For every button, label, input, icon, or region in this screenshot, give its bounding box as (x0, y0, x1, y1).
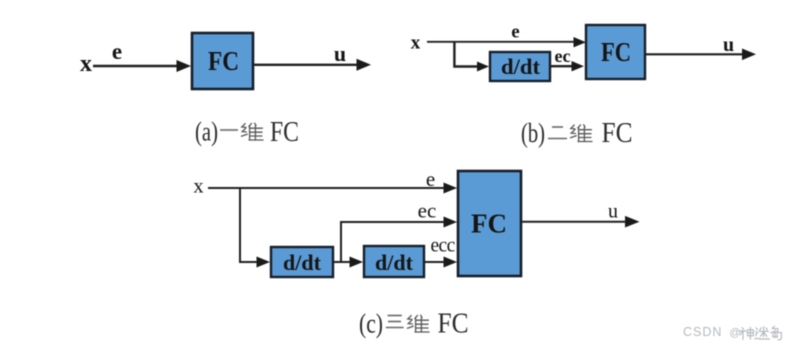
block FC U_c (458, 171, 521, 276)
svg-text:x: x (193, 176, 203, 198)
arrowhead output (a) (357, 59, 372, 71)
block FC U_b (586, 25, 645, 79)
caption (a) glyph yi (一) (220, 129, 238, 131)
svg-text:FC: FC (438, 309, 469, 340)
svg-text:e: e (426, 167, 435, 191)
watermark glyph shen (神) (740, 327, 754, 339)
arrowhead into FC (a) (177, 60, 192, 72)
svg-text:d/dt: d/dt (375, 250, 414, 275)
wire ecc from d/dt2 to FC (c) (424, 261, 444, 263)
block d/dt (b) (490, 52, 550, 81)
wire branch up ec (c) (341, 222, 444, 262)
svg-text:FC: FC (601, 37, 631, 67)
caption (b) glyph er (二) (548, 127, 567, 139)
svg-text:d/dt: d/dt (283, 250, 322, 275)
caption (b) glyph wei (570, 125, 592, 142)
wire input top e (c) (208, 187, 444, 189)
wire output u (a) (253, 64, 358, 66)
svg-text:x: x (411, 33, 421, 54)
svg-text:ec: ec (555, 46, 571, 66)
block d/dt D2 (c) (364, 246, 424, 277)
caption (c) glyph san (三) (386, 316, 404, 328)
svg-text:u: u (723, 34, 734, 56)
arrowhead into d/dt (b) (477, 62, 489, 72)
arrowhead ec into FC (b) (572, 61, 585, 71)
svg-text:u: u (334, 41, 346, 66)
block FC U_a (192, 33, 253, 89)
svg-text:FC: FC (208, 45, 239, 76)
block d/dt D1 (c) (271, 247, 333, 277)
arrowhead output (c) (625, 216, 640, 228)
arrowhead into d/dt 1 (c) (257, 257, 271, 268)
svg-text:u: u (608, 201, 618, 223)
wire ec from d/dt to FC (b) (550, 65, 572, 67)
svg-text:CSDN: CSDN (683, 325, 722, 339)
watermark glyph dao (岛) (771, 326, 782, 340)
svg-text:x: x (80, 51, 92, 77)
svg-text:ecc: ecc (431, 236, 456, 257)
watermark glyph mi (迷) (755, 327, 770, 339)
arrowhead e into FC (c) (444, 183, 458, 194)
caption (c) glyph wei (407, 315, 429, 332)
arrowhead ecc into FC (c) (444, 257, 458, 268)
wire output u (b) (645, 53, 743, 55)
svg-text:(b): (b) (521, 118, 545, 148)
arrowhead into d/dt 2 (c) (350, 257, 364, 268)
caption (a) glyph wei (241, 123, 263, 140)
svg-text:d/dt: d/dt (501, 54, 541, 79)
svg-text:(a): (a) (195, 117, 218, 147)
wire branch down to d/dt (b) (454, 42, 478, 67)
wire branch down to d/dt 1 (c) (240, 188, 257, 262)
svg-text:e: e (112, 39, 122, 64)
svg-text:(c): (c) (359, 309, 383, 339)
arrowhead e into FC (b) (574, 37, 587, 47)
arrowhead output (b) (742, 49, 756, 61)
svg-text:FC: FC (602, 118, 633, 149)
arrowhead ec into FC (c) (444, 217, 458, 228)
wire input e (a) (93, 65, 177, 68)
svg-text:ec: ec (418, 199, 437, 223)
svg-text:FC: FC (471, 209, 507, 239)
wire output u (c) (521, 221, 626, 223)
wire d/dt1 to d/dt2 (c) (333, 261, 350, 263)
wire input top e (b) (427, 41, 574, 43)
svg-text:@: @ (729, 327, 740, 339)
svg-text:FC: FC (270, 117, 299, 148)
svg-text:e: e (511, 22, 519, 43)
